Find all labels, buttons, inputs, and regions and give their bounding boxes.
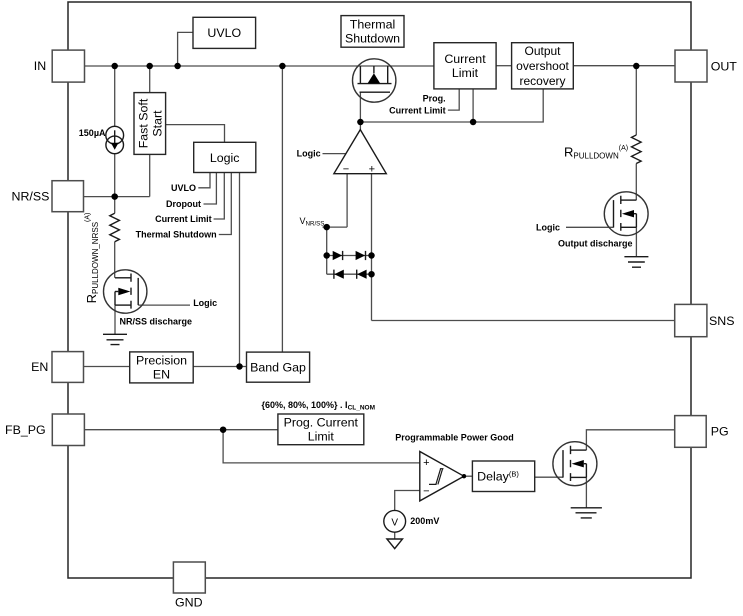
label UVLO (logic input): [171, 183, 196, 193]
label Prog. Current Limit stub: [389, 93, 446, 115]
wire IN to 150uA current source: [114, 66, 116, 126]
svg-text:SNS: SNS: [709, 314, 734, 328]
wire Current Limit to gate rail: [472, 89, 474, 122]
svg-text:IN: IN: [34, 59, 46, 73]
node diode row1 right: [368, 252, 375, 259]
svg-text:Dropout: Dropout: [166, 199, 201, 209]
block Current Limit: [434, 43, 496, 89]
wire IN to Fast Soft Start: [149, 66, 151, 93]
block Fast Soft Start: [134, 93, 166, 155]
svg-text:−: −: [343, 163, 349, 175]
wire NR/SS to resistor: [114, 197, 116, 214]
wire output discharge FET source to ground: [635, 227, 637, 256]
node on FB_PG rail: [220, 426, 227, 433]
wire Delay to PG FET gate: [535, 476, 563, 478]
block UVLO: [193, 17, 256, 48]
block Prog. Current Limit: [278, 414, 364, 445]
label Logic (output discharge gate): [536, 222, 560, 232]
node on NR/SS rail: [111, 193, 118, 200]
resistor R_PULLDOWN_NRSS: [110, 213, 120, 242]
node on IN rail at Fast Soft Start branch: [146, 63, 153, 70]
svg-text:Current: Current: [444, 52, 486, 66]
wire resistor to NR/SS discharge FET: [114, 242, 116, 278]
svg-text:Precision: Precision: [136, 354, 187, 368]
svg-text:recovery: recovery: [519, 74, 565, 88]
block Logic: [194, 142, 256, 172]
svg-text:RPULLDOWN(A): RPULLDOWN(A): [564, 145, 628, 161]
svg-text:PG: PG: [711, 424, 729, 438]
svg-text:Limit: Limit: [308, 430, 335, 444]
svg-text:Shutdown: Shutdown: [345, 32, 400, 46]
wire PG FET source to ground: [585, 477, 587, 507]
svg-text:Thermal: Thermal: [350, 18, 395, 32]
transistor M2 output discharge: [604, 192, 648, 236]
block Band Gap: [247, 352, 310, 382]
transistor M1 NR/SS discharge: [104, 270, 147, 313]
node on IN rail at 150uA branch: [111, 63, 118, 70]
label NR/SS discharge: [120, 317, 193, 327]
svg-text:+: +: [369, 163, 375, 175]
wire NR/SS rail: [84, 196, 150, 198]
op-amp error amplifier: [334, 130, 386, 176]
wire Logic to error amp: [323, 153, 347, 155]
node on IN rail at UVLO branch: [174, 63, 181, 70]
svg-text:150µA: 150µA: [79, 128, 106, 138]
diode D3: [334, 270, 344, 279]
label Thermal Shutdown (logic input): [136, 230, 217, 240]
label 150uA: [79, 128, 106, 138]
node on IN rail at Band Gap branch: [279, 63, 286, 70]
svg-text:OUT: OUT: [711, 59, 738, 73]
svg-text:Logic: Logic: [536, 222, 560, 232]
wire Logic to output discharge FET gate: [566, 226, 614, 228]
pin GND: [173, 562, 205, 609]
svg-text:VNR/SS: VNR/SS: [300, 216, 325, 228]
svg-text:Prog. Current: Prog. Current: [284, 416, 359, 430]
svg-text:Thermal Shutdown: Thermal Shutdown: [136, 230, 217, 240]
svg-text:NR/SS discharge: NR/SS discharge: [120, 317, 193, 327]
diode D2: [356, 251, 366, 260]
svg-text:−: −: [423, 485, 429, 497]
wire Prog Current Limit stub: [448, 89, 459, 110]
wire PG FET drain to PG: [586, 430, 674, 450]
node on OUT rail at pulldown branch: [633, 63, 640, 70]
label Dropout: [166, 199, 201, 209]
comparator power good: [420, 452, 464, 501]
svg-text:{60%, 80%, 100%} . ICL_NOM: {60%, 80%, 100%} . ICL_NOM: [262, 400, 376, 412]
outer device boundary border: [68, 2, 691, 578]
wire diode row 2: [327, 273, 372, 275]
label Logic (error amp): [297, 149, 321, 159]
diode D4: [357, 270, 367, 279]
svg-text:Logic: Logic: [193, 298, 217, 308]
wire VNR/SS stub: [323, 226, 348, 228]
wire Precision EN to Band Gap: [193, 366, 246, 368]
label Programmable Power Good: [395, 432, 514, 442]
wire current source to NR/SS rail: [114, 154, 116, 197]
ground triangle (200mV source): [387, 539, 403, 549]
svg-text:200mV: 200mV: [410, 516, 439, 526]
wire IN rail: [85, 65, 434, 67]
label R_PULLDOWN (A): [564, 145, 628, 161]
svg-text:RPULLDOWN_NRSS(A): RPULLDOWN_NRSS(A): [84, 213, 100, 304]
pin IN: [34, 50, 85, 82]
svg-text:overshoot: overshoot: [516, 59, 569, 73]
transistor M3 PG open drain: [553, 442, 597, 486]
wire comparator output to Delay: [464, 475, 473, 477]
label 60 80 100 percent ICL_NOM: [262, 400, 376, 412]
current source I1 150uA: [106, 126, 124, 153]
wire NR/SS discharge FET source to ground: [114, 305, 116, 334]
svg-text:+: +: [423, 457, 429, 469]
pin SNS: [675, 304, 735, 336]
wire Output overshoot recovery to OUT: [573, 65, 675, 67]
wire IN to Band Gap: [281, 66, 283, 352]
node diode row2 right: [368, 271, 375, 278]
svg-text:Logic: Logic: [297, 149, 321, 159]
label V_NR/SS: [300, 216, 325, 228]
svg-text:Limit: Limit: [452, 66, 479, 80]
svg-text:GND: GND: [175, 595, 203, 609]
ground (NR/SS discharge): [103, 334, 127, 344]
svg-text:Band Gap: Band Gap: [250, 361, 306, 375]
svg-text:UVLO: UVLO: [207, 26, 241, 40]
wire FB_PG rail: [84, 429, 278, 431]
ground (PG FET): [571, 508, 602, 518]
block Output overshoot recovery: [512, 43, 574, 89]
label Output discharge: [558, 238, 633, 248]
wire pass FET gate: [359, 92, 361, 122]
wire Logic Dropout stub: [204, 173, 217, 205]
wire gate rail to Output overshoot recovery: [360, 89, 543, 122]
svg-text:Start: Start: [151, 110, 165, 137]
wire Logic Thermal Shutdown stub: [219, 173, 232, 235]
pin NR/SS: [12, 181, 84, 212]
node comparator output: [462, 474, 466, 478]
node gate rail at Current Limit: [470, 119, 477, 126]
svg-text:EN: EN: [153, 368, 170, 382]
svg-text:EN: EN: [31, 360, 48, 374]
wire Logic to NR/SS discharge FET gate: [138, 304, 190, 306]
pin OUT: [675, 50, 737, 82]
node gate rail at amp output: [357, 119, 364, 126]
node diode row1 left: [323, 252, 330, 259]
wire error amp output to gate rail: [359, 122, 361, 130]
wire UVLO stub: [178, 32, 193, 66]
node at Band Gap input: [236, 363, 243, 370]
wire Current Limit to Output overshoot recovery: [496, 65, 512, 67]
svg-text:UVLO: UVLO: [171, 183, 196, 193]
pin EN: [31, 352, 83, 383]
wire pulldown resistor to output discharge FET: [635, 164, 637, 201]
wire error amp minus input: [346, 174, 348, 227]
svg-text:Logic: Logic: [210, 151, 240, 165]
wire error amp to SNS: [372, 320, 675, 322]
node at VNR/SS: [323, 224, 330, 231]
svg-text:V: V: [391, 517, 398, 528]
wire FB_PG to comparator plus input: [223, 430, 420, 463]
pin FB_PG: [5, 414, 84, 446]
wire Fast Soft Start to Logic: [166, 125, 225, 143]
block Delay B: [472, 461, 534, 492]
ground (output discharge): [624, 257, 648, 268]
pin PG: [675, 416, 729, 448]
wire Logic UVLO stub: [198, 173, 210, 188]
label 200mV: [410, 516, 439, 526]
svg-text:NR/SS: NR/SS: [12, 189, 50, 203]
label Current Limit (logic input): [155, 214, 212, 224]
wire EN to Precision EN: [84, 366, 130, 368]
wire 200mV source to comparator minus input: [395, 491, 420, 511]
wire diode row 1: [327, 255, 372, 257]
svg-text:Fast Soft: Fast Soft: [137, 98, 151, 148]
wire Logic Current Limit stub: [214, 173, 225, 220]
svg-text:FB_PG: FB_PG: [5, 423, 46, 437]
label R_PULLDOWN_NRSS (A) rotated: [84, 213, 100, 304]
wire Logic to Band Gap: [239, 173, 241, 367]
svg-text:Current Limit: Current Limit: [155, 214, 212, 224]
svg-text:Prog.: Prog.: [423, 93, 446, 103]
svg-text:Programmable Power Good: Programmable Power Good: [395, 432, 514, 442]
wire OUT to pulldown resistor: [635, 66, 637, 135]
svg-text:Current Limit: Current Limit: [389, 105, 446, 115]
svg-text:Output discharge: Output discharge: [558, 238, 633, 248]
wire 200mV source to ground triangle: [394, 532, 396, 539]
resistor R_PULLDOWN: [632, 135, 642, 164]
voltage source V1 200mV: [384, 510, 406, 532]
diode D1: [333, 251, 343, 260]
block Precision EN: [130, 352, 194, 383]
wire diode branch left rail: [326, 227, 328, 274]
label Logic (NR/SS discharge gate): [193, 298, 217, 308]
svg-text:Output: Output: [524, 44, 561, 58]
transistor pass FET: [353, 59, 396, 102]
block Thermal Shutdown: [341, 16, 404, 48]
wire error amp plus input: [371, 174, 373, 321]
wire Fast Soft Start to NR/SS rail: [149, 154, 151, 196]
